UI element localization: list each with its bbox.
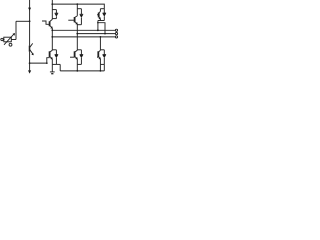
transistor Q5 collector diagonal — [99, 11, 101, 13]
terminal circle A — [115, 29, 117, 31]
wiper terminal circle — [9, 43, 12, 46]
ground arrow at UJT bottom — [28, 70, 31, 73]
diode D3 triangle — [80, 15, 84, 18]
transistor Q3 emitter with arrow — [75, 22, 78, 24]
leg2 midband vertical — [76, 24, 78, 50]
transistor Q6 collector lead — [76, 49, 78, 52]
diode D7 anode lead — [103, 58, 105, 64]
wire trigger line to base Q4 — [30, 62, 47, 64]
leg3 lower midband vertical — [99, 37, 101, 50]
leg1 midband vertical — [51, 28, 53, 50]
diode D4 cathode lead — [55, 50, 57, 55]
cell2 top tie — [77, 8, 81, 10]
cell4 bottom tie extended — [52, 63, 60, 65]
diode D4 triangle — [55, 55, 59, 58]
diode D4 anode lead — [55, 58, 57, 64]
cell2 diode tie — [77, 24, 81, 26]
node dot bus leg2 — [76, 70, 78, 72]
diode D5 cathode bar — [103, 12, 107, 14]
node dot B staircase — [104, 33, 106, 35]
diode D5 triangle — [102, 14, 106, 17]
output line B — [77, 33, 115, 35]
diode D7 cathode lead — [103, 50, 105, 55]
transistor Q6 emitter with arrow — [75, 57, 78, 59]
diode D4 cathode bar — [55, 54, 59, 56]
cell6 top tie — [100, 49, 104, 51]
battery long bar — [50, 71, 55, 73]
transistor Q2 emitter with arrow — [50, 26, 53, 29]
node junction dot trigger line — [29, 62, 31, 64]
diode D7 cathode bar — [103, 54, 107, 56]
DC plus lead top — [51, 0, 53, 10]
transistor Q5 bar — [98, 13, 100, 18]
DC supply lead with arrow above UJT — [29, 0, 31, 21]
node junction dot base tap Q4 — [46, 62, 48, 64]
cell6 bottom tie — [100, 63, 104, 65]
transistor Q7 base stub — [97, 56, 98, 58]
diode D3 cathode lead — [80, 9, 82, 15]
node bus dot leg2 — [76, 3, 78, 5]
bottom DC bus — [60, 70, 104, 72]
transistor Q6 collector diagonal — [75, 50, 78, 52]
diode D2 cathode bar — [55, 12, 59, 14]
transistor Q5 emitter with arrow — [99, 17, 101, 19]
cell1 top tie — [52, 9, 56, 11]
wire UJT cathode down — [29, 52, 31, 71]
diode D3 cathode bar — [80, 13, 84, 15]
top DC bus — [52, 4, 104, 9]
wire cell4 drop to bus — [59, 64, 61, 71]
diode D2 anode lead — [55, 16, 57, 18]
diode D6 anode lead — [80, 58, 82, 64]
transistor Q6 bar — [74, 51, 76, 57]
node dot A leg1 — [51, 29, 53, 31]
transistor Q5 collector lead — [99, 9, 101, 12]
transistor Q3 collector diagonal — [75, 16, 78, 18]
transistor Q4 collector lead — [51, 49, 53, 52]
wire up from rheostat — [15, 21, 17, 39]
wire terminal to rheostat — [3, 39, 4, 41]
cell3 top tie — [100, 8, 104, 10]
input terminal circle — [1, 38, 3, 40]
transistor Q4 collector diagonal — [50, 50, 53, 52]
node dot bus leg3 — [100, 70, 102, 72]
transistor Q4 bar — [49, 51, 51, 57]
leg3 drop to line A — [97, 21, 99, 31]
transistor Q5 base stub — [97, 14, 99, 16]
cell3 bottom tie — [98, 20, 104, 22]
node dot C leg1 — [51, 36, 53, 38]
output line C — [52, 36, 115, 38]
transistor Q3 base stub — [68, 19, 74, 21]
transistor Q4 emitter lead — [51, 59, 53, 65]
transistor Q5 emitter lead — [99, 19, 101, 21]
transistor Q7 emitter with arrow — [99, 57, 101, 59]
node dot trigger tee — [29, 20, 31, 22]
diode D5 cathode lead — [103, 9, 105, 13]
DC return stub leg1 — [51, 64, 53, 72]
wire rheostat right stub — [12, 39, 17, 41]
resistor R1 rheostat body — [4, 37, 12, 42]
wire trigger top line — [16, 20, 30, 22]
node dot B leg2 — [76, 33, 78, 35]
cell5 bottom tie — [77, 63, 81, 65]
cell1 diode tie — [52, 18, 56, 20]
transistor Q6 base stub — [70, 56, 75, 58]
UJT Q1 upper lead diagonal — [30, 43, 33, 47]
node bus dot leg1 — [51, 3, 53, 5]
wire base riser Q4 — [47, 58, 50, 63]
battery short bar — [51, 73, 53, 75]
transistor Q2 collector lead — [51, 10, 53, 20]
rheostat wiper arrow — [4, 34, 14, 45]
transistor Q3 bar — [74, 17, 76, 22]
diode D2 cathode lead — [55, 10, 57, 14]
UJT Q1 emitter diagonal with arrow — [30, 50, 34, 55]
diode D6 cathode lead — [80, 50, 82, 55]
transistor Q7 emitter lead — [99, 59, 101, 65]
transistor Q4 emitter with arrow — [50, 57, 53, 59]
diode D3 anode lead — [80, 18, 82, 25]
node dot leg3 jog — [97, 22, 99, 24]
diode D5 anode lead — [103, 17, 105, 21]
terminal circle C — [115, 36, 117, 38]
wire leg3 staircase to line B — [98, 23, 105, 34]
transistor Q2 bar — [49, 21, 51, 26]
diode D7 triangle — [102, 55, 106, 58]
wire leg3 drop to bus — [99, 64, 101, 71]
node dot A leg3 — [97, 29, 99, 31]
node dot C leg3 lower — [100, 36, 102, 38]
transistor Q7 collector diagonal — [99, 50, 101, 52]
wire bus corner up right — [103, 64, 105, 71]
wire leg2 drop to bus — [76, 64, 78, 71]
diode D2 triangle — [55, 14, 59, 17]
output line A — [52, 29, 115, 31]
diode D6 triangle — [80, 55, 84, 58]
cell5 top tie — [77, 49, 81, 51]
cell2 bus drop — [76, 4, 78, 9]
cell4 top tie — [52, 49, 56, 51]
wire base jog Q2 — [42, 21, 50, 24]
transistor Q3 collector lead — [76, 9, 78, 16]
diode D6 cathode bar — [80, 54, 84, 56]
transistor Q7 collector lead — [99, 49, 101, 52]
terminal circle B — [115, 33, 117, 35]
transistor Q7 bar — [97, 51, 99, 57]
UJT Q1 bar — [29, 46, 31, 52]
wire down to UJT Q1 — [29, 21, 31, 45]
transistor Q6 emitter lead — [76, 59, 78, 65]
transistor Q2 collector diagonal — [50, 19, 53, 21]
